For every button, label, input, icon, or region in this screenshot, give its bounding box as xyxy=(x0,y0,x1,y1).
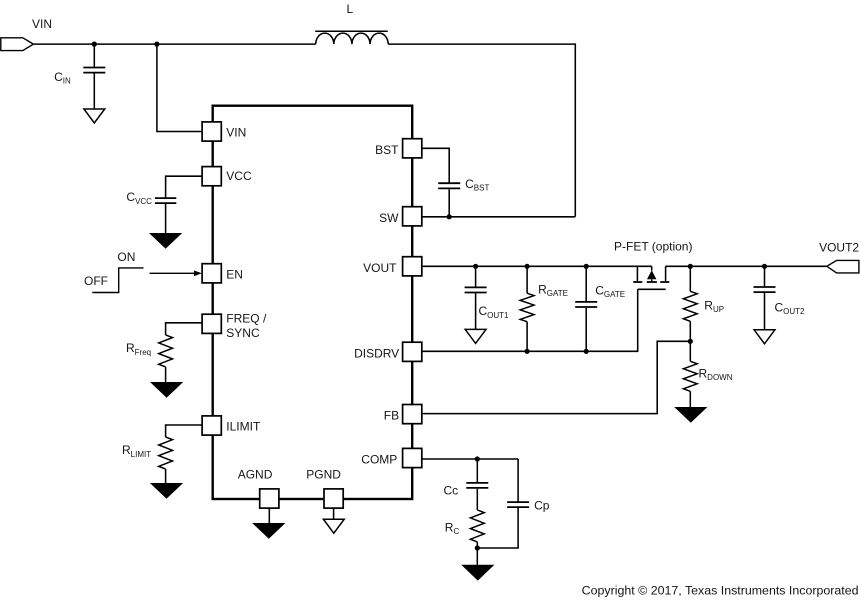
svg-text:COMP: COMP xyxy=(361,452,397,466)
svg-text:PGND: PGND xyxy=(306,468,341,482)
pin FREQ/SYNC xyxy=(202,314,221,333)
svg-text:SW: SW xyxy=(379,211,399,225)
label L xyxy=(347,2,354,16)
label OFF xyxy=(84,274,108,288)
label CIN xyxy=(54,70,71,86)
node junction Rc/Cp xyxy=(475,545,480,550)
pin AGND xyxy=(260,489,279,508)
node junction RGATE xyxy=(525,264,530,269)
label CGATE xyxy=(595,284,625,300)
pin label ILIMIT xyxy=(226,420,261,434)
pin VIN xyxy=(202,122,221,141)
node junction COUT1 xyxy=(473,264,478,269)
resistor RFreq xyxy=(159,323,203,382)
ground (RDOWN) xyxy=(674,407,707,423)
svg-text:RGATE: RGATE xyxy=(538,282,568,298)
capacitor CGATE xyxy=(575,266,597,351)
node junction RUP xyxy=(688,264,693,269)
pin VOUT xyxy=(403,257,422,276)
capacitor CBST xyxy=(422,148,460,217)
svg-text:VIN: VIN xyxy=(226,126,246,140)
svg-text:Cc: Cc xyxy=(444,483,459,497)
capacitor COUT2 xyxy=(754,266,776,330)
pin ILIMIT xyxy=(202,416,221,435)
pin label AGND xyxy=(238,467,273,481)
svg-text:OFF: OFF xyxy=(84,274,108,288)
svg-text:FREQ /: FREQ / xyxy=(226,312,267,326)
wire EN arrow xyxy=(150,270,202,276)
svg-text:EN: EN xyxy=(226,268,243,282)
ground (RFreq) xyxy=(150,382,183,398)
svg-text:VIN: VIN xyxy=(32,17,52,31)
svg-text:DISDRV: DISDRV xyxy=(354,346,399,360)
svg-text:CGATE: CGATE xyxy=(595,284,625,300)
ground (COUT2) xyxy=(754,330,775,344)
net label VIN xyxy=(32,17,52,31)
node junction RGATE/DISDRV xyxy=(525,349,530,354)
svg-text:ON: ON xyxy=(117,250,135,264)
pin DISDRV xyxy=(403,342,422,361)
svg-text:CVCC: CVCC xyxy=(126,190,152,206)
label P-FET (option) xyxy=(614,240,692,254)
wire FB to divider xyxy=(422,341,691,413)
svg-text:RC: RC xyxy=(445,521,460,537)
svg-text:VOUT2: VOUT2 xyxy=(819,240,859,254)
wire VIN branch to pin xyxy=(157,44,203,131)
resistor RGATE xyxy=(520,266,534,351)
pin SW xyxy=(403,207,422,226)
net label VOUT2 xyxy=(819,240,859,254)
svg-text:L: L xyxy=(347,2,354,16)
svg-text:ILIMIT: ILIMIT xyxy=(226,420,261,434)
label CBST xyxy=(465,177,489,193)
capacitor Cp xyxy=(477,459,529,548)
label RFreq xyxy=(126,341,151,357)
pin PGND xyxy=(324,489,343,508)
wire VOUT rail right xyxy=(666,265,827,267)
node junction CBST/SW xyxy=(447,214,452,219)
svg-text:Copyright © 2017, Texas Instru: Copyright © 2017, Texas Instruments Inco… xyxy=(582,584,859,598)
ground (AGND) xyxy=(252,508,285,539)
pin label FREQ / SYNC xyxy=(226,312,267,341)
svg-text:AGND: AGND xyxy=(238,467,273,481)
label RGATE xyxy=(538,282,568,298)
node junction CGATE/DISDRV xyxy=(584,349,589,354)
label RUP xyxy=(704,299,724,315)
label RLIMIT xyxy=(122,443,151,459)
op-amp U1 IC body xyxy=(213,106,413,499)
svg-text:FB: FB xyxy=(384,408,399,422)
svg-text:RLIMIT: RLIMIT xyxy=(122,443,151,459)
ground (RLIMIT) xyxy=(150,483,183,499)
pin EN xyxy=(202,264,221,283)
node junction VIN branch xyxy=(154,42,159,47)
label COUT1 xyxy=(479,304,510,320)
pin label PGND xyxy=(306,468,341,482)
svg-text:COUT2: COUT2 xyxy=(775,301,806,317)
pin label DISDRV xyxy=(354,346,399,360)
transistor Q1 P-FET xyxy=(633,266,669,289)
node junction CIN xyxy=(92,42,97,47)
capacitor COUT1 xyxy=(465,266,487,329)
input port VIN xyxy=(1,38,34,51)
ground (PGND) xyxy=(323,508,344,533)
wire VIN rail xyxy=(33,43,315,45)
inductor L xyxy=(315,31,388,44)
capacitor Cc xyxy=(466,459,488,510)
pin FB xyxy=(403,405,422,424)
capacitor CIN xyxy=(83,44,105,109)
ground (COUT1) xyxy=(465,329,486,343)
wire COMP row xyxy=(422,458,518,460)
wire VOUT rail left xyxy=(422,265,652,267)
ground (Rc/Cp) xyxy=(461,548,494,581)
capacitor CVCC xyxy=(155,176,203,233)
output port VOUT2 xyxy=(827,260,859,273)
wire DISDRV row and gate riser xyxy=(422,289,638,351)
node junction FB divider xyxy=(688,339,693,344)
label Cc xyxy=(444,483,459,497)
ground (CVCC) xyxy=(149,233,182,249)
svg-text:Cp: Cp xyxy=(534,498,550,512)
pin BST xyxy=(403,139,422,158)
label RDOWN xyxy=(699,366,733,382)
wire inductor to SW node xyxy=(388,44,575,217)
svg-text:CIN: CIN xyxy=(54,70,71,86)
resistor RDOWN xyxy=(683,341,697,407)
pin label VCC xyxy=(226,169,252,183)
pin label BST xyxy=(375,143,399,157)
label Cp xyxy=(534,498,550,512)
svg-text:CBST: CBST xyxy=(465,177,489,193)
svg-text:SYNC: SYNC xyxy=(226,326,260,340)
resistor Rc xyxy=(470,510,484,548)
svg-text:VOUT: VOUT xyxy=(363,261,397,275)
label ON xyxy=(117,250,135,264)
svg-text:COUT1: COUT1 xyxy=(479,304,510,320)
svg-text:RDOWN: RDOWN xyxy=(699,366,733,382)
ground (CIN) xyxy=(84,109,105,123)
svg-text:RUP: RUP xyxy=(704,299,724,315)
label Rc xyxy=(445,521,460,537)
pin COMP xyxy=(403,448,422,467)
pin label SW xyxy=(379,211,399,225)
pin label EN xyxy=(226,268,243,282)
pin label VIN xyxy=(226,126,246,140)
node junction Cc/COMP xyxy=(475,456,480,461)
label CVCC xyxy=(126,190,152,206)
svg-text:VCC: VCC xyxy=(226,169,252,183)
node junction CGATE xyxy=(584,264,589,269)
resistor RLIMIT xyxy=(159,425,203,483)
pin label COMP xyxy=(361,452,397,466)
svg-text:RFreq: RFreq xyxy=(126,341,151,357)
on/off step waveform xyxy=(92,268,143,293)
pin label FB xyxy=(384,408,399,422)
pin VCC xyxy=(202,167,221,186)
wire SW row xyxy=(422,216,576,218)
svg-text:BST: BST xyxy=(375,143,399,157)
svg-text:P-FET (option): P-FET (option) xyxy=(614,240,692,254)
resistor RUP xyxy=(683,266,697,341)
copyright note xyxy=(582,584,859,598)
node junction COUT2 xyxy=(762,264,767,269)
pin label VOUT xyxy=(363,261,397,275)
label COUT2 xyxy=(775,301,806,317)
